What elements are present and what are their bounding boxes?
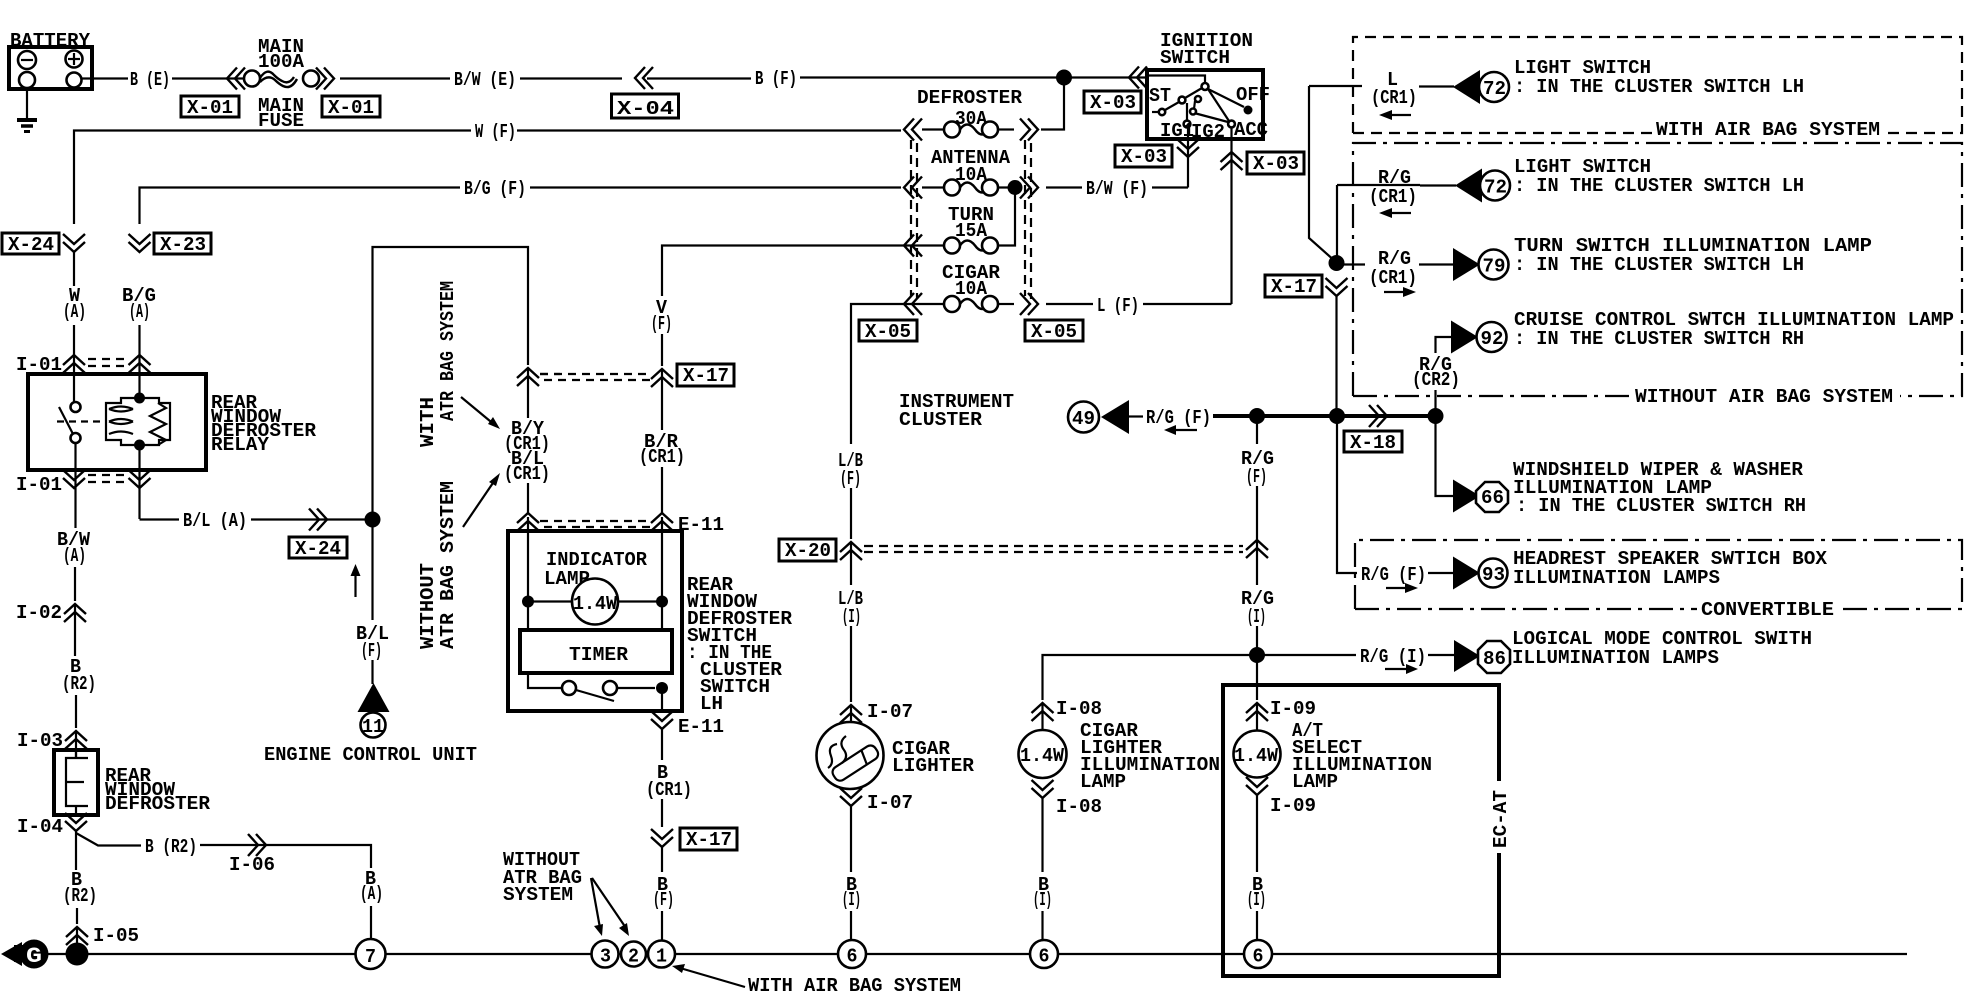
wire to B (F) [661, 847, 663, 872]
svg-text:ACC: ACC [1234, 119, 1268, 141]
connector I-08 chevron bottom [1032, 780, 1054, 798]
arrow right under R/G (F) 93 [1386, 583, 1418, 593]
cigar lighter illumination lamp 1.4W [1019, 730, 1067, 778]
relay switch [59, 402, 81, 443]
pin 72b [1480, 171, 1510, 201]
label B (A) branch col [360, 868, 383, 905]
pin 72 top [1479, 72, 1509, 102]
svg-text:(CR1): (CR1) [646, 779, 692, 801]
indicator lamp box [508, 531, 682, 711]
svg-text:15A: 15A [955, 220, 987, 242]
wire IG1 down [1187, 127, 1189, 188]
connector I-08 chevron top [1032, 703, 1054, 721]
relay dashed link [57, 420, 104, 422]
lamp wires [528, 600, 662, 602]
pin 79 [1479, 250, 1509, 280]
connector X-23 chevron [129, 234, 151, 252]
wire junction down to defroster fuse output [1041, 78, 1064, 130]
svg-text:92: 92 [1481, 328, 1504, 350]
connector chevron ignition feed [1129, 67, 1147, 89]
arrow left under (CR1) 72b [1379, 208, 1411, 218]
connector box X-17 top right [1265, 275, 1322, 298]
svg-text:CONVERTIBLE: CONVERTIBLE [1701, 599, 1834, 621]
connector X-04 chevron [635, 67, 653, 89]
svg-text:ST: ST [1149, 85, 1171, 107]
arrow left under L (CR1) [1379, 110, 1411, 120]
svg-text:I-06: I-06 [229, 854, 275, 876]
svg-text:I-04: I-04 [17, 816, 63, 838]
wire turn fuse to V corner [662, 246, 922, 297]
wire 92 riser [1434, 390, 1436, 416]
svg-text:: IN THE CLUSTER SWITCH LH: : IN THE CLUSTER SWITCH LH [1514, 76, 1804, 98]
connector box X-23 [154, 233, 211, 256]
wire R/G (F) down from junction [1256, 416, 1258, 444]
svg-text:(F): (F) [653, 889, 674, 911]
svg-text:I-08: I-08 [1056, 796, 1102, 818]
svg-text:X-05: X-05 [865, 321, 911, 343]
connector I-07 chevron top [840, 705, 862, 723]
instrument cluster pin 49 [1068, 402, 1099, 433]
svg-text:I-05: I-05 [93, 925, 139, 947]
dash-dot box CONVERTIBLE [1355, 540, 1962, 609]
ground symbol G [1, 940, 49, 970]
arrow right under (CR1) 79 [1384, 287, 1416, 297]
wire to triangle 93 [1428, 572, 1454, 574]
svg-text:B/W (F): B/W (F) [1086, 178, 1148, 200]
svg-text:(F): (F) [1246, 466, 1267, 488]
svg-text:SYSTEM: SYSTEM [503, 884, 573, 906]
ground connector 6 at [1244, 940, 1272, 968]
wire B (F) [647, 77, 751, 79]
pin 93 [1479, 559, 1508, 588]
junction switch right [656, 682, 668, 694]
dashes right of B/Y chevron [540, 373, 560, 375]
label R/G (CR1) 79 [1369, 248, 1417, 289]
arrow to B/Y [461, 397, 500, 429]
wire turn output riser [999, 188, 1015, 246]
svg-text:X-04: X-04 [617, 98, 674, 120]
wire to triangle 79 [1419, 263, 1454, 265]
wire to cigar lighter [850, 705, 852, 722]
svg-text:X-17: X-17 [683, 365, 729, 387]
wire lamp right down [661, 602, 663, 631]
wire to B (I) [850, 806, 852, 872]
triangle 72b [1455, 169, 1482, 203]
connector E-11 chevron left top [517, 513, 539, 531]
label B (R2) lower [63, 869, 97, 907]
wire B/L(F) down from X-24 junction [371, 520, 373, 621]
label WITHOUT ATR BAG SYSTEM bottom [503, 849, 582, 906]
label W (A) [63, 285, 86, 323]
svg-text:(I): (I) [842, 889, 861, 911]
svg-text:6: 6 [847, 946, 858, 968]
wire label to 86 triangle [1428, 654, 1454, 656]
wire B/L (A) to X-24 [251, 518, 373, 520]
connector I-05 chevron [66, 927, 88, 945]
svg-text:(CR1): (CR1) [1369, 186, 1417, 208]
vertical text WITH ATR BAG SYSTEM [417, 281, 459, 447]
wire lamp left down [527, 602, 529, 631]
svg-text:G: G [26, 944, 42, 969]
svg-text:49: 49 [1072, 408, 1095, 430]
wire V(F) down [661, 334, 663, 366]
svg-text:X-18: X-18 [1350, 432, 1396, 454]
wire B(A) down to circle 7 [370, 906, 372, 939]
arrow to B/L [463, 473, 500, 527]
junction R/G at 1435 [1428, 408, 1444, 424]
label V (F) [651, 297, 672, 335]
wire W(A) down to relay [73, 325, 75, 352]
label INDICATOR LAMP [544, 549, 647, 590]
ground connector 6 cigar [838, 940, 866, 968]
wire thick R/G bus [1213, 414, 1434, 418]
triangle 49 [1101, 400, 1129, 434]
junction B(F)/defroster fuse [1056, 70, 1072, 86]
svg-text:EC-AT: EC-AT [1490, 790, 1512, 848]
svg-text:RELAY: RELAY [211, 434, 269, 456]
connector box X-17 bottom [680, 828, 737, 851]
svg-text:72: 72 [1483, 78, 1506, 100]
wire B/L branch horizontal top [373, 247, 529, 520]
junction lamp right [656, 596, 668, 608]
ground connector 3 [592, 941, 619, 968]
label REAR WINDOW DEFROSTER [105, 765, 210, 815]
ground connector 1 [648, 941, 675, 968]
svg-text:I-07: I-07 [867, 792, 913, 814]
connector box X-17 mid [677, 364, 734, 387]
ground [17, 120, 37, 132]
fuse TURN chevron left [904, 235, 922, 257]
wire battery B(E) [81, 77, 128, 79]
engine control unit triangle [358, 683, 390, 712]
svg-text:: IN THE CLUSTER SWITCH RH: : IN THE CLUSTER SWITCH RH [1514, 328, 1804, 350]
wire to B (CR1) [661, 729, 663, 760]
wire L vertical [1309, 86, 1336, 262]
svg-text:86: 86 [1483, 648, 1506, 670]
connector E-11 dashes [540, 521, 650, 527]
svg-text:B/W (E): B/W (E) [454, 69, 516, 91]
relay coil junction bottom [134, 440, 145, 451]
wire R/G into EC-AT box [1256, 655, 1258, 700]
svg-text:(F): (F) [651, 313, 672, 335]
svg-text:(CR1): (CR1) [504, 463, 550, 485]
arrow left under R/G (F) [1164, 425, 1197, 435]
fuse CIGAR [922, 296, 1014, 312]
wire into box left [527, 517, 529, 602]
svg-text:X-05: X-05 [1031, 321, 1077, 343]
svg-text:1.4W: 1.4W [1020, 745, 1064, 767]
svg-text:WITH AIR BAG SYSTEM: WITH AIR BAG SYSTEM [748, 975, 961, 992]
wire battery to ground [26, 88, 28, 120]
svg-text:(I): (I) [1247, 606, 1266, 628]
label MAIN 100A [258, 36, 304, 73]
wire L (F) [1046, 303, 1093, 305]
connector X-20 chevron right [1246, 540, 1268, 558]
svg-text:WITHOUT: WITHOUT [417, 563, 439, 649]
ignition switch box [1147, 70, 1263, 139]
junction lamp left [522, 596, 534, 608]
svg-text:100A: 100A [258, 51, 304, 73]
fuse DEFROSTER chevron left [904, 119, 922, 141]
svg-text:(A): (A) [63, 301, 86, 323]
wire B/Y chevron to label [527, 368, 529, 418]
svg-text:6: 6 [1039, 946, 1050, 968]
A/T select illumination lamp 1.4W [1234, 731, 1281, 778]
svg-text:(CR2): (CR2) [1412, 369, 1460, 391]
connector I-01 chevron right bottom [129, 470, 151, 488]
arrow to connector 2 [592, 878, 629, 936]
label WINDSHIELD WIPER WASHER [1513, 459, 1806, 517]
wire L (F) to ACC riser [1143, 303, 1232, 305]
connector X-03 chevron IG1 [1177, 139, 1199, 157]
wire R/G 72b [1337, 184, 1420, 186]
label LOGICAL MODE CONTROL SWITH [1512, 628, 1812, 669]
wire 66 drop [1436, 416, 1455, 496]
connector box X-05 right [1025, 320, 1083, 343]
label DEFROSTER 30A [917, 87, 1022, 130]
svg-text:R/G (F): R/G (F) [1361, 564, 1426, 586]
svg-text:X-20: X-20 [785, 540, 831, 562]
dashed box WITH AIR BAG SYSTEM [1353, 37, 1962, 133]
fuse block left dashed bus [911, 140, 917, 299]
svg-text:R/G (I): R/G (I) [1360, 646, 1426, 668]
junction L/RG [1329, 255, 1345, 271]
ground bus wire [88, 953, 1907, 955]
ground junction dot [66, 943, 89, 966]
svg-text:ATR BAG SYSTEM: ATR BAG SYSTEM [437, 281, 459, 421]
junction R/G at 1337 [1329, 408, 1345, 424]
connector X-18 chevron [1369, 405, 1387, 427]
label TURN 15A [948, 204, 994, 242]
svg-text:(A): (A) [129, 301, 150, 323]
svg-text:LH: LH [700, 693, 723, 715]
wire I-05 to ground junction [76, 927, 78, 948]
ground connector 6 cigar illum [1030, 940, 1058, 968]
connector I-01 dashes bottom [88, 475, 128, 482]
wire to X-20 right chevron [1256, 486, 1258, 540]
dash-dot box WITHOUT AIR BAG SYSTEM [1353, 143, 1962, 396]
wire to I-02 [74, 567, 76, 601]
label B (R2) vertical col [62, 656, 96, 695]
fuse CIGAR chevron left [904, 293, 922, 315]
svg-text:WITH AIR BAG SYSTEM: WITH AIR BAG SYSTEM [1656, 119, 1880, 141]
fuse DEFROSTER chevron right [1020, 119, 1038, 141]
connector I-01 chevron left bottom [63, 470, 85, 488]
arrow right under R/G (I) 86 [1385, 664, 1418, 674]
svg-text:ATR BAG SYSTEM: ATR BAG SYSTEM [437, 481, 459, 649]
svg-text:I-02: I-02 [16, 602, 62, 624]
timer box [520, 630, 672, 673]
label R/G (CR1) 72b [1369, 167, 1417, 208]
label EC-AT rotated [1490, 790, 1512, 848]
wire B/W (A) [74, 494, 76, 528]
wire W (F) corner [74, 131, 471, 225]
wire relay switch to bottom [74, 443, 76, 494]
connector I-07 chevron bottom [840, 788, 862, 806]
label R/G (CR2) [1412, 354, 1460, 391]
svg-text:B (R2): B (R2) [145, 836, 197, 858]
connector I-02 chevron [64, 604, 86, 622]
svg-text:ILLUMINATION LAMPS: ILLUMINATION LAMPS [1512, 647, 1719, 669]
wire B/L (F) to ECU [371, 660, 373, 684]
svg-text:WITH: WITH [417, 397, 439, 447]
svg-text:6: 6 [1253, 946, 1264, 968]
wire to I-05 [76, 908, 78, 924]
connector chevron main fuse right [316, 68, 334, 90]
svg-text:11: 11 [362, 716, 384, 738]
rear window defroster element [66, 750, 88, 815]
wire R/G (I) down to junction [1256, 626, 1258, 655]
connector I-06 chevron [248, 834, 266, 856]
label R/G (I) col [1241, 588, 1274, 628]
junction antenna/turn output [1008, 180, 1023, 195]
svg-text:OFF: OFF [1236, 84, 1270, 106]
connector I-01 chevron left top [63, 355, 85, 373]
label ANTENNA 10A [931, 147, 1010, 186]
label B (F) col [653, 874, 674, 911]
label REAR WINDOW DEFROSTER SWITCH [687, 574, 792, 715]
wire W (A) [73, 252, 75, 286]
label REAR WINDOW DEFROSTER RELAY [211, 392, 316, 456]
svg-text:X-17: X-17 [1271, 276, 1317, 298]
wire B/L (A) corner [140, 518, 180, 520]
svg-text:(A): (A) [360, 883, 383, 905]
svg-text:X-24: X-24 [8, 234, 54, 256]
label MAIN FUSE [258, 95, 304, 132]
svg-text:W (F): W (F) [475, 121, 516, 143]
label CIGAR LIGHTER ILLUMINATION LAMP [1080, 720, 1220, 793]
fuse ANTENNA chevron left [904, 177, 922, 199]
wire B/G(F) to antenna fuse [530, 186, 901, 188]
svg-text:(I): (I) [1247, 889, 1266, 911]
svg-text:B/L (A): B/L (A) [183, 510, 247, 532]
connector X-17 chevron right col [1326, 278, 1348, 296]
svg-text:79: 79 [1483, 256, 1506, 278]
wire L/B to X-20 [850, 488, 852, 539]
wire to E-11 [661, 467, 663, 514]
connector X-17 dashes mid [540, 374, 650, 380]
wire below X-17 [661, 369, 663, 430]
relay coil [106, 398, 170, 445]
svg-text:: IN THE CLUSTER SWITCH LH: : IN THE CLUSTER SWITCH LH [1514, 254, 1804, 276]
defroster switch contacts [528, 673, 655, 701]
svg-text:L (F): L (F) [1097, 295, 1139, 317]
pin 92 [1477, 322, 1507, 352]
wire G to junction [48, 953, 66, 955]
label LIGHT SWITCH top [1514, 57, 1804, 98]
wire B/W (F) to IG1 riser [1152, 186, 1188, 188]
wire to connector 6 [1256, 911, 1258, 940]
wire junction to 86 label [1257, 654, 1356, 656]
svg-text:72: 72 [1484, 177, 1507, 199]
indicator lamp bulb 1.4W [572, 579, 618, 625]
pin 86 octagon [1478, 641, 1510, 673]
svg-text:ILLUMINATION LAMPS: ILLUMINATION LAMPS [1513, 567, 1720, 589]
pin 66 octagon [1476, 482, 1508, 512]
wire B (F) to ignition switch [800, 76, 1146, 78]
svg-text:E-11: E-11 [678, 514, 724, 536]
wire to I-03 [75, 695, 77, 728]
connector I-01 dashes top [88, 359, 128, 366]
wire into box right [661, 517, 663, 602]
label B/G (A) [122, 285, 156, 323]
connector box X-03 left [1115, 145, 1172, 168]
wire riser to 92 corner [1436, 337, 1453, 353]
label TURN SWITCH ILLUMINATION LAMP [1514, 235, 1872, 276]
fusible link MAIN [244, 71, 319, 88]
rear window defroster relay box [28, 374, 206, 470]
triangle 79 [1453, 248, 1480, 281]
wire R/G (I) [1256, 540, 1258, 585]
svg-text:E-11: E-11 [678, 716, 724, 738]
triangle 92 [1451, 321, 1478, 354]
label CIGAR 10A [942, 262, 1000, 300]
svg-text:1.4W: 1.4W [1234, 745, 1278, 767]
connector X-24 chevron [63, 234, 85, 252]
vertical text WITHOUT ATR BAG SYSTEM [417, 481, 459, 649]
svg-text:I-08: I-08 [1056, 698, 1102, 720]
svg-text:FUSE: FUSE [258, 110, 304, 132]
wire to X-04 [520, 77, 622, 79]
rear window defroster element box [54, 750, 98, 815]
svg-text:DEFROSTER: DEFROSTER [917, 87, 1022, 109]
label A/T SELECT ILLUMINATION LAMP [1292, 720, 1432, 793]
connector X-17 chevron bottom [651, 829, 673, 847]
svg-text:X-01: X-01 [328, 97, 374, 119]
cigar lighter [817, 722, 884, 789]
svg-text:R/G (F): R/G (F) [1146, 407, 1211, 429]
svg-text:1.4W: 1.4W [573, 593, 617, 615]
battery B+ [9, 47, 92, 89]
svg-text:X-03: X-03 [1121, 146, 1167, 168]
svg-text:(R2): (R2) [63, 885, 97, 907]
connector box X-01 right [322, 96, 380, 119]
label B/W (A) [57, 529, 90, 567]
svg-text:(CR1): (CR1) [1369, 267, 1417, 289]
wire to A/T lamp [1256, 703, 1258, 731]
svg-text:(A): (A) [63, 545, 86, 567]
wire relay coil to bottom [138, 445, 140, 519]
arrow to connector 1 [672, 964, 745, 987]
connector X-04 chevron main fuse left [227, 68, 245, 90]
svg-text:93: 93 [1482, 564, 1505, 586]
svg-text:10A: 10A [955, 278, 987, 300]
svg-text:LAMP: LAMP [1080, 771, 1126, 793]
connector E-11 chevron bottom [651, 711, 673, 729]
fuse ANTENNA chevron right [1020, 177, 1038, 199]
svg-text:X-17: X-17 [686, 829, 732, 851]
wire 93 drop [1337, 416, 1357, 573]
svg-text:I-07: I-07 [867, 701, 913, 723]
svg-text:(CR1): (CR1) [1371, 87, 1417, 109]
wire B/G(A) down to relay [138, 325, 140, 352]
label B (I) cigar [842, 874, 861, 911]
wire B (R2) down from I-04 [75, 831, 77, 870]
connector X-03 chevron ACC [1221, 152, 1243, 170]
label B/L (F) mid [356, 623, 389, 662]
wire B/W (F) [1046, 186, 1082, 188]
wire to connector 6 [850, 911, 852, 940]
label B (CR1) [646, 762, 692, 801]
fuse CIGAR chevron right [1020, 293, 1038, 315]
connector E-11 chevron right top [651, 513, 673, 531]
arrow up beside B/L [351, 564, 361, 597]
svg-text:(I): (I) [842, 606, 861, 628]
arrow to connector 3 [591, 878, 603, 936]
connector box X-03 right [1247, 152, 1304, 175]
label L/B (F) [838, 450, 863, 490]
svg-text:7: 7 [365, 946, 376, 968]
